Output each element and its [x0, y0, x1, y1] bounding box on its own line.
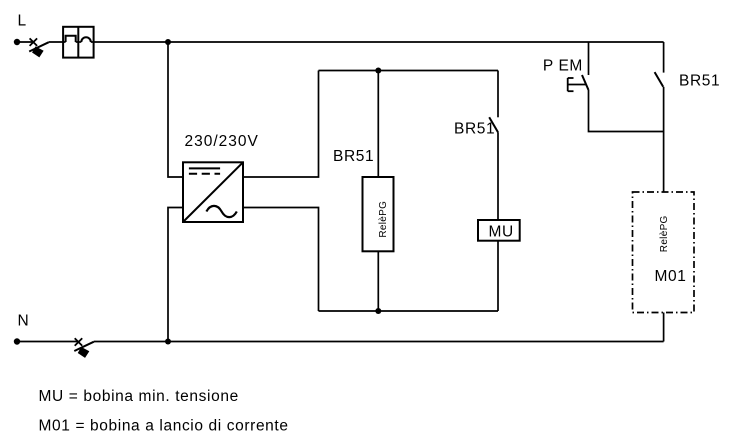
wire primary lower [168, 208, 183, 342]
junction dot [375, 68, 381, 74]
thermal-magnetic breaker box [63, 27, 94, 58]
terminal N [14, 338, 20, 344]
svg-text:P EM: P EM [543, 58, 583, 75]
wire P EM branch [588, 42, 590, 75]
svg-text:N: N [18, 313, 30, 330]
terminal L [14, 39, 20, 45]
wire secondary upper [243, 71, 319, 178]
magnetic release hump [81, 37, 91, 42]
wire loop top bus [319, 70, 499, 72]
relay coil BR51 [363, 177, 394, 251]
wire [377, 71, 379, 178]
wire [49, 41, 66, 43]
wire secondary lower [243, 208, 319, 312]
breaker release square (N) [78, 348, 88, 358]
contact BR51 blade [489, 117, 498, 132]
svg-text:RelèPG: RelèPG [659, 215, 670, 252]
wire [497, 71, 499, 118]
wire [17, 41, 33, 43]
N contact cross [75, 338, 83, 346]
wire [377, 251, 379, 311]
junction dot [165, 39, 171, 45]
junction dot [165, 339, 171, 345]
svg-text:MU = bobina min. tensione: MU = bobina min. tensione [39, 388, 239, 405]
L contact cross [30, 38, 37, 46]
svg-text:BR51: BR51 [679, 73, 720, 90]
AC symbol [206, 206, 236, 217]
wire [76, 41, 82, 43]
wire [663, 87, 665, 192]
pushbutton P EM blade [582, 75, 589, 90]
breaker blade (L) [29, 42, 49, 51]
contact BR51 blade (right) [655, 72, 664, 87]
DC symbol [189, 167, 220, 169]
svg-text:RelèPG: RelèPG [378, 201, 389, 238]
wire [497, 241, 499, 311]
wire [663, 313, 665, 342]
svg-text:L: L [18, 13, 27, 30]
M01 dashed box [633, 192, 695, 313]
svg-text:M01: M01 [655, 268, 687, 285]
breaker blade (N) [74, 342, 94, 351]
wire [17, 341, 78, 343]
junction dot [375, 308, 381, 314]
svg-text:230/230V: 230/230V [185, 133, 259, 150]
wire [589, 90, 664, 132]
svg-text:MU: MU [489, 224, 514, 241]
coil MU box [478, 220, 520, 241]
breaker release square (L) [33, 47, 43, 57]
wire top bus [91, 41, 664, 43]
svg-text:M01 = bobina a lancio di corre: M01 = bobina a lancio di corrente [39, 418, 289, 435]
thermal release hump [66, 36, 76, 42]
svg-text:BR51: BR51 [333, 148, 374, 165]
wire N bus [94, 341, 664, 343]
pushbutton P EM actuator [568, 78, 586, 91]
svg-text:BR51: BR51 [454, 121, 495, 138]
wire loop bottom bus [319, 310, 499, 312]
wire [497, 132, 499, 220]
wire [663, 42, 665, 73]
transformer T1 box [183, 162, 243, 222]
wire primary upper [168, 42, 183, 177]
